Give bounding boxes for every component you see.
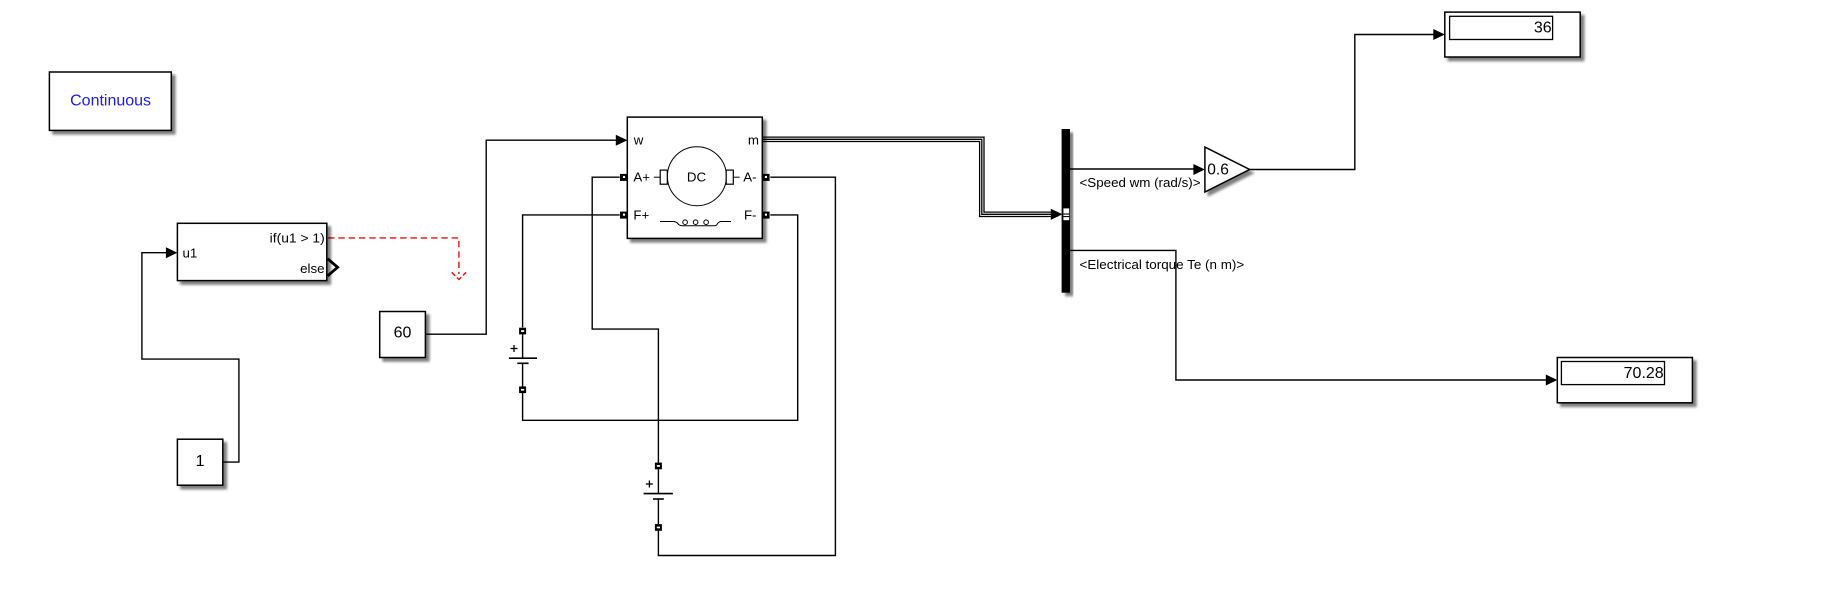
svg-text:<Speed wm (rad/s)>: <Speed wm (rad/s)> [1080,175,1201,190]
svg-text:m: m [748,133,759,148]
svg-text:F-: F- [744,207,757,222]
svg-text:DC: DC [687,170,707,185]
svg-text:else: else [300,261,324,276]
svg-text:60: 60 [394,325,412,342]
svg-text:<Electrical torque Te (n m)>: <Electrical torque Te (n m)> [1080,257,1245,272]
svg-text:w: w [633,133,644,148]
svg-text:A+: A+ [633,170,650,185]
svg-text:1: 1 [196,453,205,470]
svg-text:A-: A- [743,170,756,185]
svg-text:36: 36 [1534,20,1552,37]
svg-text:70.28: 70.28 [1624,365,1664,382]
svg-text:u1: u1 [183,246,198,261]
svg-text:F+: F+ [633,207,649,222]
svg-text:Continuous: Continuous [70,93,151,110]
svg-text:0.6: 0.6 [1207,161,1229,178]
svg-text:if(u1 > 1): if(u1 > 1) [270,231,325,246]
